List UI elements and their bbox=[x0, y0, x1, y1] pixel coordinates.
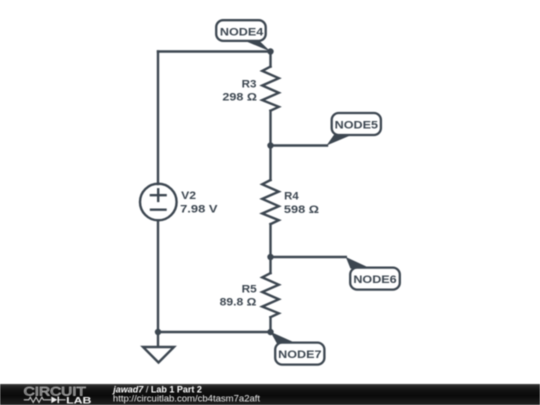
callout box NODE7 bbox=[275, 343, 324, 365]
node NODE7 junction dot bbox=[267, 329, 273, 335]
svg-text:NODE4: NODE4 bbox=[220, 27, 264, 39]
svg-text:LAB: LAB bbox=[66, 395, 92, 405]
wire R4 to node6 bbox=[269, 224, 271, 257]
resistor R3 bbox=[262, 67, 279, 111]
wire node6 stub bbox=[271, 256, 346, 258]
svg-text:http://circuitlab.com/cb4tasm7: http://circuitlab.com/cb4tasm7a2aft bbox=[113, 394, 261, 404]
callout box NODE6 bbox=[350, 268, 400, 290]
svg-text:598 Ω: 598 Ω bbox=[284, 204, 319, 216]
svg-text:7.98 V: 7.98 V bbox=[180, 204, 218, 216]
wire top horizontal bbox=[158, 50, 271, 52]
node NODE4 junction dot bbox=[267, 48, 273, 54]
callout tail NODE6 bbox=[346, 257, 371, 269]
V2 minus sign bbox=[151, 208, 166, 210]
svg-text:NODE7: NODE7 bbox=[278, 349, 321, 361]
callout tail NODE7 bbox=[270, 332, 297, 344]
logo resistor zigzag bbox=[24, 397, 51, 402]
logo diode bbox=[51, 397, 59, 404]
wire node5 stub bbox=[271, 144, 328, 146]
voltage source V2 bbox=[140, 184, 177, 221]
callout tail NODE4 bbox=[244, 41, 271, 52]
wire R3 to node5 bbox=[269, 111, 271, 146]
callout tail NODE5 bbox=[327, 135, 353, 146]
ground bbox=[143, 332, 174, 363]
wire node5 to R4 bbox=[269, 146, 271, 181]
resistor R4 bbox=[262, 180, 279, 224]
svg-text:298 Ω: 298 Ω bbox=[222, 92, 257, 104]
svg-text:NODE6: NODE6 bbox=[353, 274, 396, 286]
wire left vertical lower bbox=[157, 220, 159, 332]
callout box NODE4 bbox=[216, 20, 266, 41]
ground junction dot bbox=[155, 329, 161, 335]
svg-text:89.8 Ω: 89.8 Ω bbox=[220, 297, 257, 309]
wire bottom horizontal bbox=[158, 331, 271, 333]
callout box NODE5 bbox=[332, 113, 381, 135]
svg-text:R3: R3 bbox=[242, 78, 257, 90]
svg-text:R5: R5 bbox=[242, 283, 257, 295]
wire left vertical upper bbox=[157, 52, 159, 185]
node NODE6 junction dot bbox=[267, 254, 273, 260]
svg-text:V2: V2 bbox=[181, 190, 196, 202]
resistor R5 bbox=[262, 273, 279, 317]
svg-text:NODE5: NODE5 bbox=[335, 119, 378, 131]
V2 plus sign bbox=[151, 189, 166, 201]
svg-text:R4: R4 bbox=[284, 191, 299, 203]
node NODE5 junction dot bbox=[267, 142, 273, 148]
wire right vertical: node4 to R3 bbox=[269, 52, 271, 67]
wire R5 to node7 bbox=[269, 317, 271, 332]
wire node6 to R5 bbox=[269, 257, 271, 273]
